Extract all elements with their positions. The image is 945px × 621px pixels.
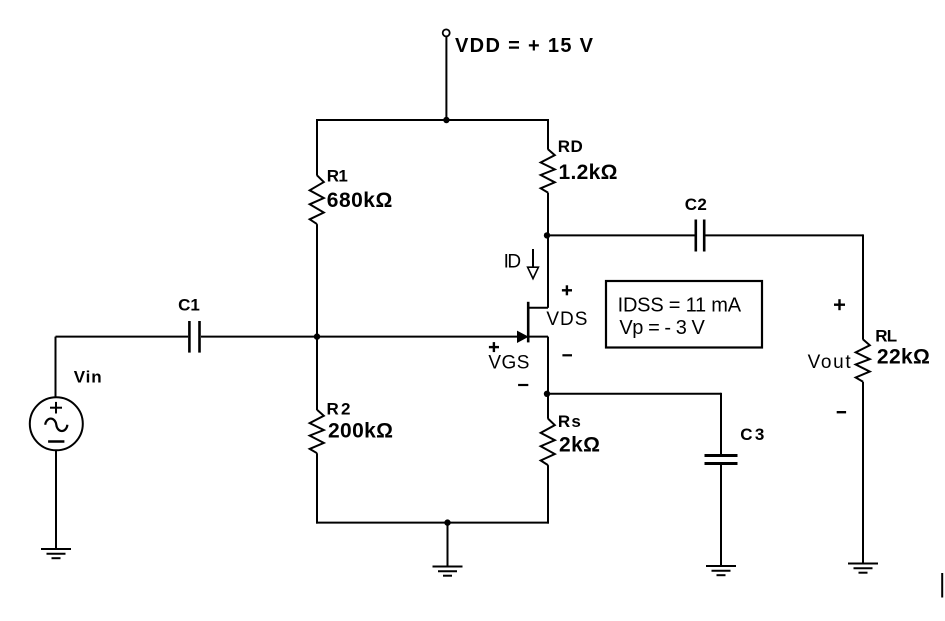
wire gate from Vin to C1: [56, 336, 189, 338]
svg-text:Rs: Rs: [558, 412, 581, 431]
label IDSS = 11 mA: [618, 294, 742, 316]
junction dot drain node: [544, 232, 550, 238]
label RL: [875, 327, 897, 346]
wire right rail top (top rail to RD): [547, 119, 549, 150]
resistor RL: [856, 339, 870, 381]
resistor Rs: [541, 419, 555, 466]
minus sign VDS: [562, 354, 572, 356]
label 1.2kΩ: [559, 161, 618, 184]
svg-text:RL: RL: [875, 327, 897, 346]
wire ground stem (bottom rail): [447, 523, 449, 567]
label VDS: [546, 309, 587, 330]
wire drain vertical: [547, 235, 549, 307]
svg-text:C3: C3: [740, 425, 764, 444]
capacitor C2: [696, 220, 704, 252]
ID current arrow: [528, 249, 539, 279]
svg-text:C1: C1: [178, 296, 200, 315]
stray cursor mark: [941, 573, 943, 598]
svg-text:ID: ID: [504, 251, 521, 272]
capacitor C3: [705, 456, 738, 464]
label R2: [327, 400, 351, 419]
wire drain node to C2: [548, 234, 695, 236]
svg-text:1.2kΩ: 1.2kΩ: [559, 161, 618, 184]
junction dot VDD/top rail: [443, 117, 449, 123]
wire left rail middle (R1 to R2): [316, 224, 318, 410]
label RD: [558, 137, 583, 156]
transistor Q1 JFET channel bar: [527, 302, 530, 343]
wire gate from C1 to JFET gate: [201, 336, 519, 338]
transistor Q1 JFET gate arrow: [518, 331, 528, 342]
junction dot source/C3 node: [544, 391, 550, 397]
label 680kΩ: [327, 189, 393, 212]
label Vin: [74, 368, 102, 387]
svg-text:Vp = - 3 V: Vp = - 3 V: [619, 317, 705, 339]
junction dot bottom rail / ground: [444, 519, 450, 525]
wire RD to drain node: [547, 193, 549, 236]
svg-text:2kΩ: 2kΩ: [559, 433, 600, 456]
ground (RL): [848, 564, 878, 573]
plus sign VDS: [562, 285, 572, 295]
wire source node to C3: [548, 393, 721, 395]
label 22kΩ: [877, 345, 930, 368]
transistor Q1 JFET source stub: [528, 336, 548, 338]
wire C3 top vertical: [720, 393, 722, 454]
svg-text:22kΩ: 22kΩ: [877, 345, 930, 368]
sine symbol inside Vin: [45, 419, 67, 431]
svg-text:VDD = + 15 V: VDD = + 15 V: [455, 35, 594, 57]
capacitor C1: [189, 321, 199, 353]
plus sign VGS: [489, 342, 499, 352]
resistor R1: [310, 175, 324, 224]
transistor Q1 JFET drain stub: [528, 307, 548, 309]
label 200kΩ: [328, 419, 393, 442]
svg-text:VDS: VDS: [546, 309, 587, 330]
label VGS: [488, 353, 529, 374]
wire left rail lower (R2 to bottom rail): [316, 453, 318, 523]
wire C3 bottom vertical: [720, 465, 722, 566]
label C1: [178, 296, 200, 315]
svg-text:680kΩ: 680kΩ: [327, 189, 393, 212]
label Vp = - 3 V: [619, 317, 705, 339]
wire Rs to bottom rail: [547, 465, 549, 523]
wire RL top vertical: [862, 234, 864, 339]
minus sign Vout: [837, 411, 846, 413]
svg-text:R2: R2: [327, 400, 351, 419]
svg-text:IDSS = 11 mA: IDSS = 11 mA: [618, 294, 742, 316]
VDD terminal circle: [443, 29, 450, 36]
label C3: [740, 425, 764, 444]
wire bottom rail: [316, 522, 549, 524]
svg-text:C2: C2: [685, 195, 707, 214]
svg-text:Vin: Vin: [74, 368, 102, 387]
label Rs: [558, 412, 581, 431]
wire RL bottom vertical: [862, 382, 864, 564]
ground (bottom rail): [433, 567, 463, 576]
svg-text:200kΩ: 200kΩ: [328, 419, 393, 442]
plus sign inside Vin: [50, 402, 62, 414]
label ID: [504, 251, 521, 272]
label 2kΩ: [559, 433, 600, 456]
label VDD = + 15 V: [455, 35, 594, 57]
ground (Vin): [41, 549, 71, 558]
wire Vin top vertical: [55, 337, 57, 397]
ground (C3): [706, 566, 736, 575]
label Vout: [808, 352, 852, 373]
resistor RD: [541, 149, 555, 192]
label R1: [327, 167, 348, 186]
wire Vin bottom vertical: [55, 450, 57, 549]
source Vin circle: [30, 397, 83, 450]
svg-text:Vout: Vout: [808, 352, 852, 373]
wire C2 to RL: [706, 234, 864, 236]
junction dot gate/left rail: [314, 333, 320, 339]
wire top rail: [316, 119, 549, 121]
resistor R2: [310, 410, 324, 453]
label C2: [685, 195, 707, 214]
wire source vertical to Rs: [547, 337, 549, 419]
minus sign VGS: [518, 384, 528, 386]
svg-text:VGS: VGS: [488, 353, 529, 374]
svg-text:RD: RD: [558, 137, 583, 156]
wire left rail upper (top rail to R1): [316, 119, 318, 176]
svg-text:R1: R1: [327, 167, 348, 186]
minus sign inside Vin: [48, 440, 64, 442]
parameter box IDSS/Vp: [606, 281, 762, 348]
wire VDD stem: [445, 37, 447, 121]
plus sign Vout: [834, 299, 845, 310]
